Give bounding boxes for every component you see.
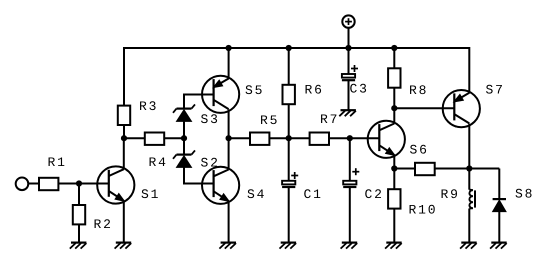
- svg-text:R8: R8: [409, 83, 428, 98]
- svg-text:C2: C2: [365, 187, 384, 202]
- wire C1 to ground: [288, 187, 290, 243]
- node R6/C1: [286, 135, 292, 141]
- wire supply to rail: [348, 28, 350, 48]
- wire junction to S2 cathode: [183, 138, 185, 154]
- svg-text:R7: R7: [320, 112, 339, 127]
- svg-text:R4: R4: [149, 155, 168, 170]
- wire R1 to S1 base, node: [58, 183, 108, 185]
- transistor S4: [202, 167, 239, 204]
- svg-text:R3: R3: [139, 99, 158, 114]
- svg-text:S6: S6: [410, 143, 429, 158]
- node R3/R4/S1 collector: [121, 135, 127, 141]
- wire node to S6 collector: [393, 108, 395, 123]
- ground C3: [339, 110, 356, 116]
- node zener junction: [181, 135, 187, 141]
- zener diode S3: [173, 104, 195, 121]
- wire rail to C3: [348, 48, 350, 74]
- wire node to R5: [229, 137, 250, 139]
- wire rail to R6: [288, 48, 290, 85]
- wire S4 emitter down: [228, 201, 230, 242]
- svg-text:S5: S5: [245, 83, 264, 98]
- S6 emitter to output node: [393, 156, 395, 169]
- svg-text:S3: S3: [201, 112, 220, 127]
- svg-text:S1: S1: [141, 187, 160, 202]
- input terminal: [16, 178, 29, 191]
- wire R3 to node: [123, 125, 125, 138]
- wire node down to C1: [288, 138, 290, 181]
- node R8/S6 collector/S7 base: [391, 105, 397, 111]
- node S7 collector/coil: [466, 165, 472, 171]
- ground R10: [385, 243, 402, 249]
- ground C1: [280, 243, 297, 249]
- node R7/C2/S6 base: [347, 135, 353, 141]
- wire: top supply rail with corners down to R3 and S7 emitter: [124, 48, 469, 106]
- capacitor C1: [282, 172, 298, 187]
- svg-text:R5: R5: [260, 113, 279, 128]
- svg-text:R6: R6: [305, 83, 324, 98]
- node S5 collector/S4 collector/R5: [226, 135, 232, 141]
- svg-text:C3: C3: [350, 82, 369, 97]
- resistor R3: [118, 106, 130, 125]
- wire node to R9 box: [394, 168, 415, 170]
- node rail/R6: [286, 45, 292, 51]
- svg-text:S8: S8: [515, 187, 534, 202]
- zener diode S2: [173, 150, 195, 167]
- wire S5 collector down: [228, 109, 230, 138]
- svg-text:R9: R9: [441, 187, 460, 202]
- transistor S1: [97, 166, 134, 203]
- resistor R2: [73, 205, 85, 224]
- transistor S6: [368, 121, 405, 158]
- wire coil to ground: [468, 209, 470, 243]
- wire C3 to ground: [348, 80, 350, 110]
- svg-text:R10: R10: [409, 203, 438, 218]
- node rail/S5: [226, 45, 232, 51]
- ground S4 emitter: [219, 243, 236, 249]
- wire to S8: [498, 169, 500, 200]
- supply terminal: [342, 15, 354, 27]
- svg-text:S4: S4: [247, 187, 266, 202]
- wire input to R1: [28, 183, 39, 185]
- wire S3 anode to junction: [183, 121, 185, 138]
- wire S8 to ground: [498, 212, 500, 243]
- wire rail to S5 emitter: [228, 48, 230, 79]
- wire node to R2: [78, 184, 80, 206]
- wire node to S4 collector: [228, 138, 230, 169]
- node rail/R8: [391, 45, 397, 51]
- wire R10 to ground: [393, 209, 395, 243]
- ground coil: [460, 243, 477, 249]
- ground S8: [490, 243, 507, 249]
- wire R9 to S8 branch: [435, 168, 500, 170]
- wire R6 to node: [288, 104, 290, 138]
- ground R2: [70, 243, 87, 249]
- wire node to R10: [393, 169, 395, 190]
- svg-text:R1: R1: [48, 155, 67, 170]
- resistor R1: [39, 178, 58, 190]
- wire R2 to ground: [78, 224, 80, 242]
- svg-text:C1: C1: [304, 187, 323, 202]
- wire node to S7 base: [394, 107, 454, 109]
- svg-text:S2: S2: [201, 156, 220, 171]
- wire S5 base to S3 cathode: [184, 95, 214, 109]
- wire node to R4: [124, 137, 145, 139]
- resistor R7: [310, 133, 329, 145]
- wire R4 to zener junction: [164, 137, 184, 139]
- wire S2 anode to S4 base: [184, 167, 214, 183]
- transistor S7: [443, 90, 480, 127]
- wire R8 to node: [393, 88, 395, 109]
- wire S1 collector up to node: [123, 138, 125, 169]
- inductor coil: [469, 169, 475, 209]
- ground S1 emitter: [115, 243, 132, 249]
- transistor S5: [202, 76, 239, 113]
- wire rail to R8: [393, 48, 395, 68]
- svg-text:R2: R2: [94, 217, 113, 232]
- wire node down to C2: [349, 138, 351, 181]
- wire S1 emitter down: [123, 201, 125, 243]
- ground C2: [341, 243, 358, 249]
- node rail/C3: [345, 45, 351, 51]
- capacitor C3: [342, 65, 358, 80]
- wire S7 collector down: [468, 124, 470, 169]
- svg-text:S7: S7: [486, 83, 505, 98]
- wire R5 to R7: [269, 137, 309, 139]
- diode S8: [493, 199, 506, 212]
- wire R7 to S6 base: [329, 137, 379, 139]
- capacitor C2: [343, 168, 359, 187]
- node input/R2 junction: [76, 180, 82, 186]
- node S6 emitter/R9/R10: [391, 165, 397, 171]
- wire C2 to ground: [349, 187, 351, 243]
